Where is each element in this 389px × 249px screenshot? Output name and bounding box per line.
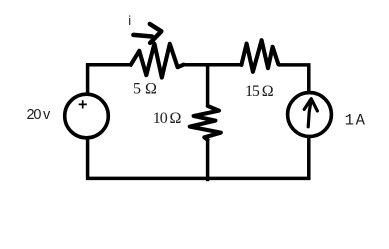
voltage source V1 (circle) xyxy=(65,94,109,138)
wire: middle branch bottom (10-ohm to bottom wire) xyxy=(206,140,210,182)
current direction arrow for i (above 5-ohm resistor) xyxy=(133,24,161,43)
svg-text:5 Ω: 5 Ω xyxy=(133,81,157,98)
svg-text:10 Ω: 10 Ω xyxy=(153,110,182,127)
svg-text:15 Ω: 15 Ω xyxy=(245,83,274,100)
wire: top middle segment (5-ohm to 15-ohm through node at top of 10-ohm) xyxy=(184,63,242,67)
svg-text:20 v: 20 v xyxy=(27,107,52,123)
current source I1 (circle) xyxy=(288,93,332,137)
resistor R3 10 ohm (vertical zigzag, middle branch) xyxy=(190,106,221,140)
wire: bottom rail (voltage source bottom, bottom-left corner, bottom wire, bottom-right corner up to current source) xyxy=(88,136,309,178)
resistor R2 15 ohm (zigzag, top-right) xyxy=(241,40,278,72)
resistor R1 5 ohm (zigzag, top-left) xyxy=(131,44,184,78)
arrow inside current source (pointing up) xyxy=(304,99,317,127)
wire: top right corner down to current source xyxy=(278,65,308,93)
svg-text:i: i xyxy=(128,13,131,28)
wire: left branch top (voltage source top to top-left corner to 5-ohm resistor) xyxy=(88,65,131,96)
svg-text:A: A xyxy=(356,111,366,129)
svg-text:1: 1 xyxy=(345,111,354,129)
plus sign inside voltage source xyxy=(79,100,87,108)
wire: middle branch top (node to 10-ohm resistor) xyxy=(206,63,210,106)
